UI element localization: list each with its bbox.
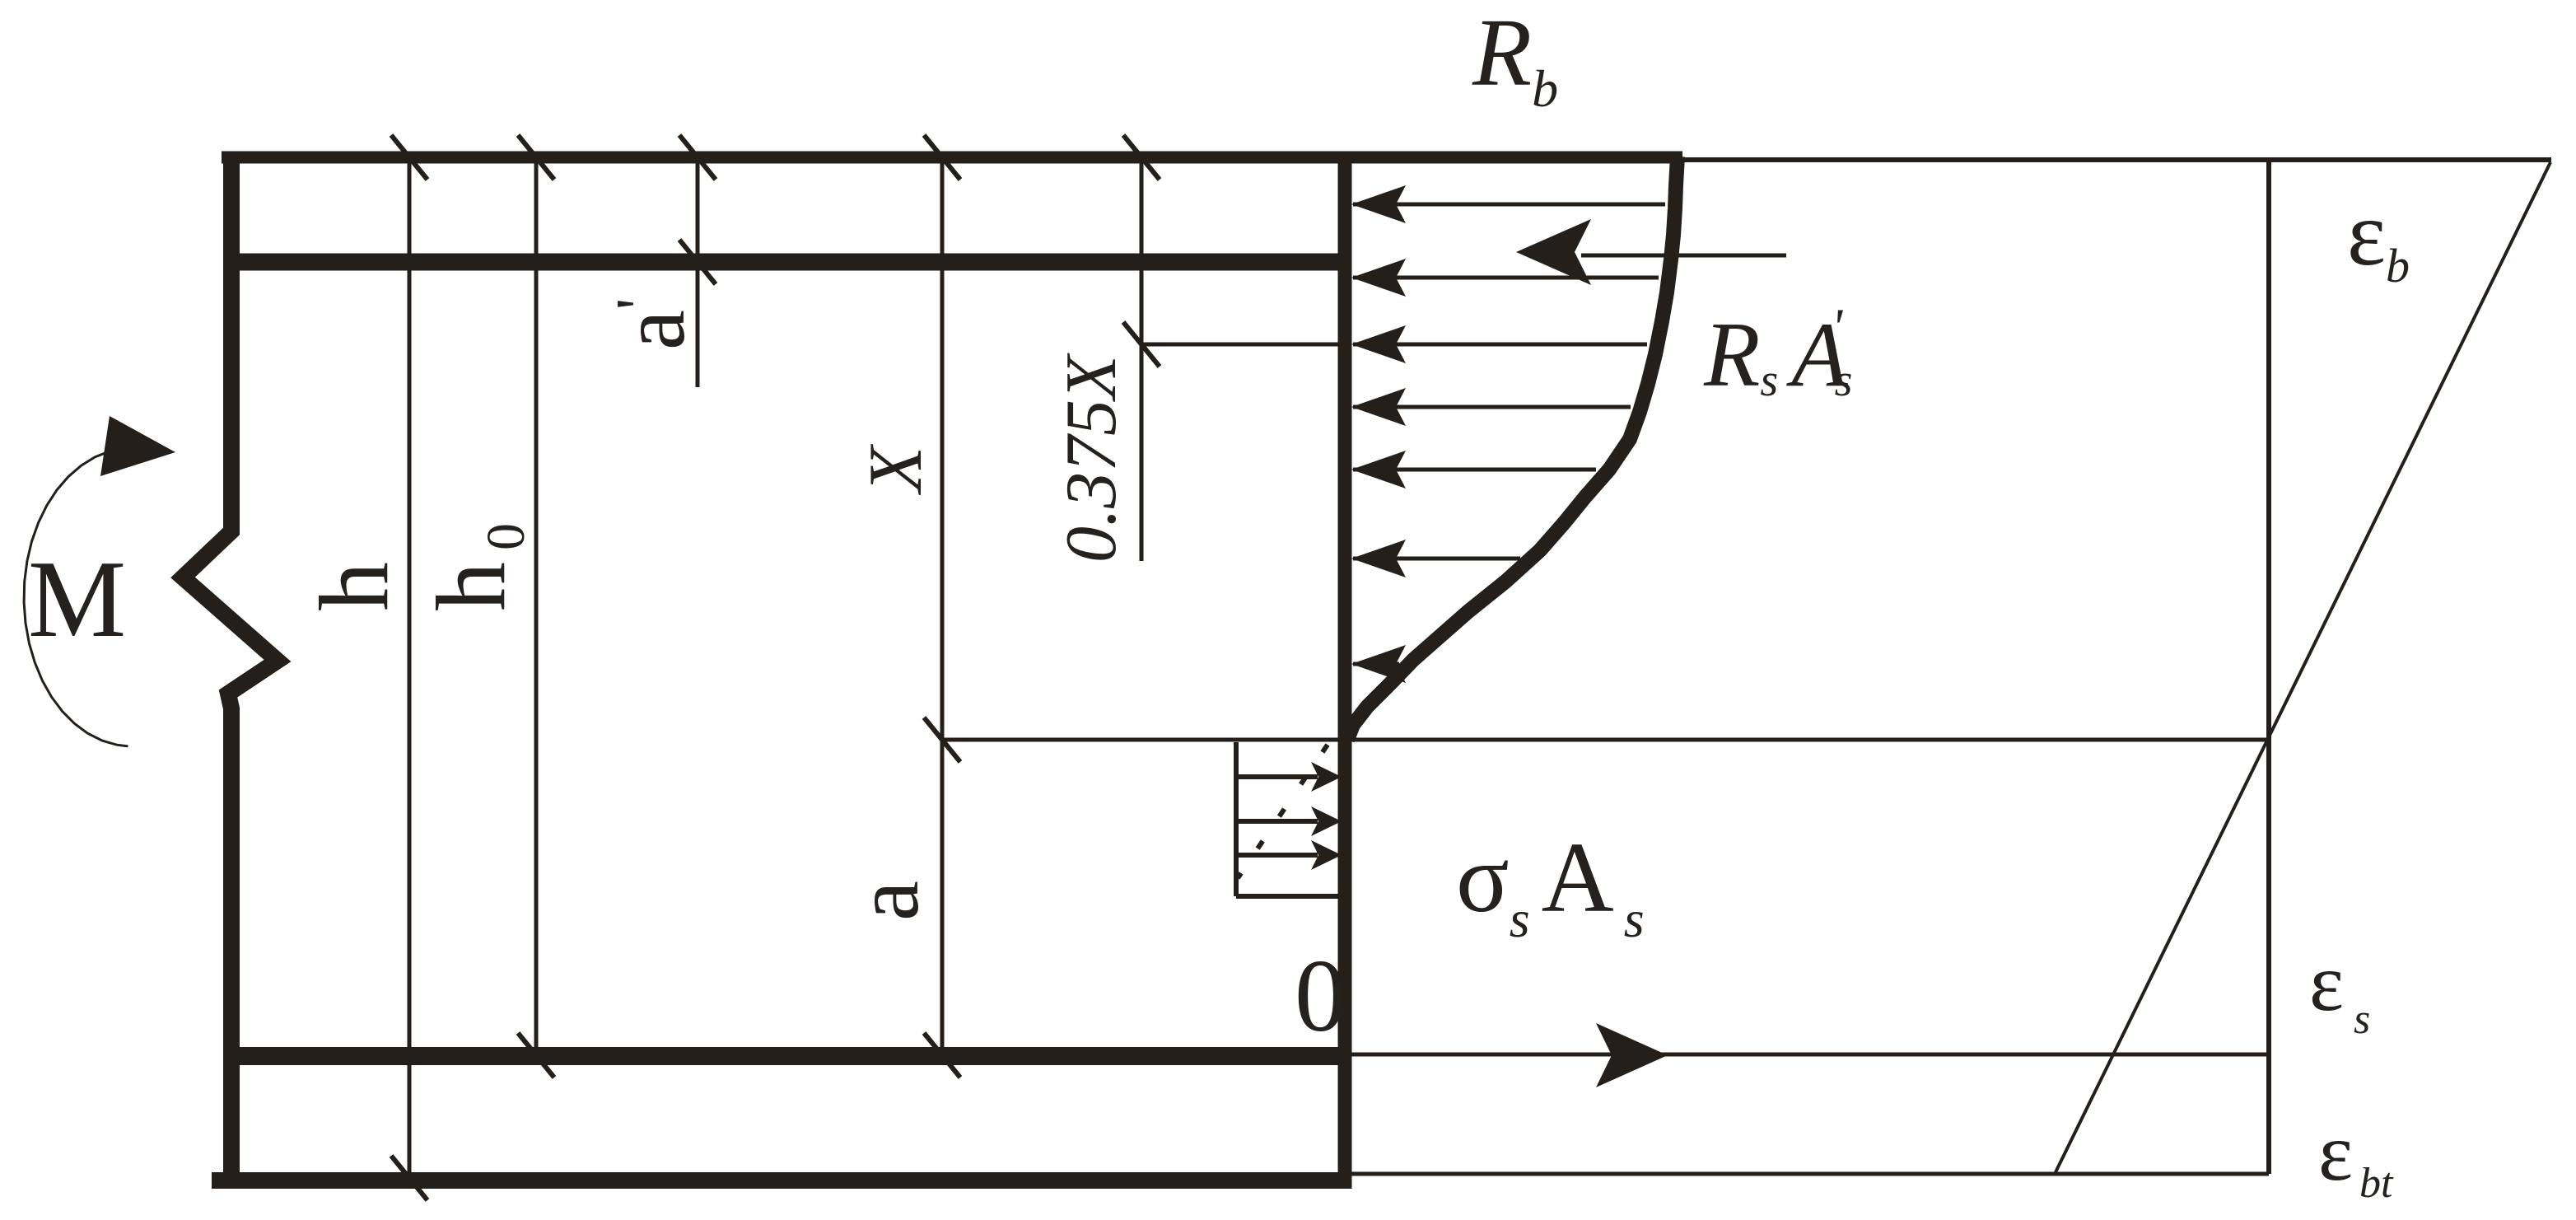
strain diagram diagonal xyxy=(2056,162,2550,1172)
section face / stress axis vertical (thick) xyxy=(1338,152,1352,1189)
bottom reinforcement line (thick) xyxy=(223,1047,1351,1065)
sigma-s-As force arrowhead xyxy=(1596,1023,1668,1087)
tick a bottom xyxy=(924,1033,960,1077)
compression fan arrowheads xyxy=(1351,185,1406,223)
compressive stress curve Rb xyxy=(1347,157,1678,740)
extension line at 0.375X level xyxy=(1141,343,1345,347)
bottom line to strain diagram xyxy=(1351,1172,2269,1176)
svg-text:X: X xyxy=(853,443,937,496)
tick a' bottom xyxy=(679,240,716,284)
tension arrow tail 2 xyxy=(1236,819,1318,824)
svg-text:h: h xyxy=(299,562,408,611)
dimension line h xyxy=(408,157,412,1178)
svg-text:a: a xyxy=(837,881,937,921)
tension block bottom edge xyxy=(1236,894,1342,899)
steel level line to strain diagram xyxy=(1351,1053,2269,1057)
svg-text:0: 0 xyxy=(1295,939,1346,1054)
dimension line a' xyxy=(696,157,700,387)
moment arc M xyxy=(24,451,128,746)
tick h top xyxy=(391,135,427,180)
svg-text:M: M xyxy=(28,538,126,660)
tick h bottom xyxy=(391,1156,427,1200)
tension arrow tail 1 xyxy=(1236,774,1318,779)
tick h0 bottom xyxy=(518,1033,554,1077)
top reinforcement line (thick) xyxy=(223,254,1351,271)
tick 0.375X bottom xyxy=(1123,322,1160,367)
RsAs' force arrowhead xyxy=(1516,219,1591,285)
tick a' top xyxy=(679,135,716,180)
neutral axis line xyxy=(942,738,2269,742)
tension arrow tail 3 xyxy=(1236,853,1318,858)
strain diagram top line xyxy=(1682,157,2551,162)
RsAs' force arrow tail xyxy=(1581,254,1786,258)
tick h0 top xyxy=(518,135,554,180)
dimension line X / a xyxy=(940,157,945,1055)
beam top chord (thick) xyxy=(222,152,1682,164)
tick 0.375X top xyxy=(1123,135,1160,180)
beam left edge with break symbol (thick) xyxy=(183,152,278,1189)
compression fan arrow tails xyxy=(1353,203,1665,207)
dimension line 0.375X xyxy=(1140,157,1144,561)
tick X top xyxy=(924,135,960,180)
beam bottom chord (thick) xyxy=(212,1172,1351,1189)
tension block left edge xyxy=(1234,742,1239,896)
strain diagram vertical axis xyxy=(2266,160,2271,1174)
tick X bottom / a top xyxy=(924,718,960,762)
tension block arrowheads xyxy=(1311,762,1342,792)
moment arrowhead xyxy=(100,416,175,476)
svg-text:0.375X: 0.375X xyxy=(1052,353,1132,563)
dimension line h0 xyxy=(534,157,539,1055)
tension block dashed diagonal xyxy=(1238,745,1328,878)
